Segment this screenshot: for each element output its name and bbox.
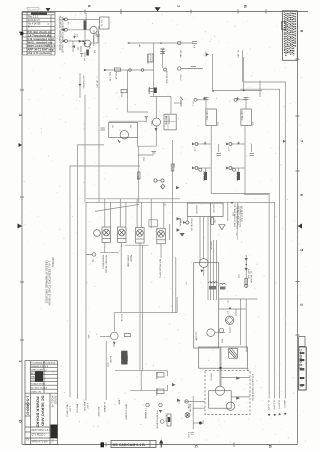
svg-text:12V: 12V <box>216 122 218 126</box>
svg-text:USED ON: USED ON <box>31 391 41 393</box>
svg-text:POWER BOARD: POWER BOARD <box>36 397 41 428</box>
svg-text:+15V SUPPLY: +15V SUPPLY <box>82 75 84 90</box>
svg-text:VOLT REG: VOLT REG <box>241 111 243 121</box>
svg-text:B: B <box>268 445 273 448</box>
svg-text:+17V: +17V <box>193 147 195 152</box>
svg-text:MOTOR: MOTOR <box>178 219 180 227</box>
svg-text:A-GND: A-GND <box>109 356 112 363</box>
svg-text:+ C7 10V: + C7 10V <box>165 413 167 423</box>
svg-text:CUTOUT: CUTOUT <box>168 116 170 125</box>
svg-text:+ ARM 15V: + ARM 15V <box>75 402 78 414</box>
svg-text:J-103: J-103 <box>187 432 189 438</box>
svg-text:VOLTAGE ADJUST R61: VOLTAGE ADJUST R61 <box>235 206 238 230</box>
svg-text:R1 10K: R1 10K <box>85 13 87 21</box>
svg-text:B+ MOTOR: B+ MOTOR <box>250 272 252 284</box>
svg-text:4 PULSE DC REGULATOR: 4 PULSE DC REGULATOR <box>251 374 254 401</box>
svg-text:F6 SPARE: F6 SPARE <box>103 402 106 413</box>
svg-text:SPARE: SPARE <box>120 352 123 360</box>
svg-text:+ ARM: + ARM <box>118 398 121 405</box>
svg-text:VOLT REG: VOLT REG <box>206 111 208 121</box>
svg-text:chk 4-71 recheck: chk 4-71 recheck <box>28 51 51 55</box>
svg-text:12V: 12V <box>251 122 253 126</box>
svg-text:B1 TEMP: B1 TEMP <box>97 407 99 417</box>
svg-text:DRAWN RJM 4-8: DRAWN RJM 4-8 <box>31 365 49 368</box>
svg-text:Q2 2N: Q2 2N <box>88 43 90 49</box>
svg-text:APPD 4-71 WH: APPD 4-71 WH <box>32 441 48 444</box>
svg-text:THE REGULATOR: THE REGULATOR <box>156 410 159 429</box>
svg-text:1.5K: 1.5K <box>213 219 215 224</box>
svg-text:R5 10K: R5 10K <box>155 372 157 380</box>
svg-text:R65 10: R65 10 <box>209 374 211 382</box>
svg-text:C4 .05: C4 .05 <box>162 48 164 55</box>
svg-text:25V: 25V <box>142 157 144 161</box>
svg-text:TOLERANCES UNLESS: TOLERANCES UNLESS <box>31 362 56 365</box>
svg-text:1.5K: 1.5K <box>232 212 234 217</box>
svg-text:AUX RELAY (OPT): AUX RELAY (OPT) <box>159 259 162 278</box>
svg-text:B: B <box>243 5 248 8</box>
svg-text:MEASURED NOMINAL VALUE: MEASURED NOMINAL VALUE <box>61 17 65 53</box>
svg-text:EMERGENCY: EMERGENCY <box>102 255 104 270</box>
svg-text:Rev 2.3.1: Rev 2.3.1 <box>28 16 39 19</box>
svg-text:115 VAC: 115 VAC <box>179 50 182 59</box>
svg-text:B+ of 47V: B+ of 47V <box>267 401 269 411</box>
svg-text:SPARE: SPARE <box>126 355 129 363</box>
svg-text:C12 10MF: C12 10MF <box>202 171 204 182</box>
svg-text:INTERLOCK: INTERLOCK <box>165 71 167 84</box>
svg-text:60 HZ: 60 HZ <box>179 75 181 82</box>
svg-text:RETRACT RELAY: RETRACT RELAY <box>105 255 108 273</box>
svg-text:+17V: +17V <box>227 147 229 152</box>
svg-text:-15V: -15V <box>87 334 89 339</box>
svg-text:1-5-0480-D: 1-5-0480-D <box>25 396 29 415</box>
svg-text:MS CAD/CAM 0-1 B: MS CAD/CAM 0-1 B <box>113 443 146 447</box>
svg-text:C1 .05: C1 .05 <box>100 20 102 27</box>
svg-text:R59 15K 1%: R59 15K 1% <box>190 219 192 231</box>
svg-text:A,B P.V: A,B P.V <box>283 401 286 409</box>
svg-text:R6 10K: R6 10K <box>155 389 157 397</box>
svg-text:- ARM 24V: - ARM 24V <box>83 401 86 412</box>
svg-text:R71 2K: R71 2K <box>120 314 122 322</box>
svg-text:UNLESS OTHERWISE SPECIFIED: UNLESS OTHERWISE SPECIFIED <box>45 261 49 304</box>
svg-text:R33 1K: R33 1K <box>148 87 150 95</box>
svg-text:NEXT ASSY 1-5-04: NEXT ASSY 1-5-04 <box>32 429 53 432</box>
svg-text:J-102: J-102 <box>69 406 71 412</box>
svg-text:DO NOT SCALE: DO NOT SCALE <box>31 386 48 389</box>
svg-text:D: D <box>18 420 23 423</box>
svg-text:+15V: +15V <box>107 362 109 368</box>
svg-text:CHECK WH 5-1: CHECK WH 5-1 <box>31 370 47 372</box>
svg-text:MOTOR: MOTOR <box>189 404 191 413</box>
svg-text:- ARM VOLTAGE: - ARM VOLTAGE <box>125 403 128 420</box>
svg-text:CURRENT LIMIT 500: CURRENT LIMIT 500 <box>239 206 241 228</box>
svg-text:+ TACH INPUT: + TACH INPUT <box>66 402 69 417</box>
svg-text:C: C <box>194 445 199 448</box>
svg-text:MODEL 45: MODEL 45 <box>50 396 53 408</box>
svg-text:R31 1K: R31 1K <box>115 72 117 80</box>
svg-text:B,J-4 P.V: B,J-4 P.V <box>273 401 275 410</box>
svg-text:MOTOR: MOTOR <box>210 242 212 251</box>
svg-text:QTY REQD 2: QTY REQD 2 <box>32 435 47 437</box>
svg-text:R100 10K: R100 10K <box>247 269 249 279</box>
svg-text:SCALE NONE: SCALE NONE <box>31 383 46 386</box>
svg-text:C: C <box>48 43 50 47</box>
svg-text:NOTES:: NOTES: <box>51 258 55 268</box>
svg-text:B 47 P.V: B 47 P.V <box>277 401 279 410</box>
svg-text:R64 2W: R64 2W <box>195 206 197 215</box>
svg-text:SERIES: SERIES <box>53 396 56 405</box>
svg-text:J-102: J-102 <box>86 403 88 409</box>
svg-text:RELAY: RELAY <box>130 255 133 263</box>
svg-text:C9 10MF: C9 10MF <box>195 332 197 342</box>
svg-text:B+ 34V: B+ 34V <box>237 51 239 59</box>
svg-text:C13 10MF: C13 10MF <box>236 171 238 182</box>
svg-text:F6 SPARE: F6 SPARE <box>144 409 147 420</box>
svg-text:1000 MFD: 1000 MFD <box>146 54 148 65</box>
svg-text:A7 15V: A7 15V <box>95 81 98 89</box>
svg-text:R60 300: R60 300 <box>212 205 214 214</box>
svg-text:C3 50V: C3 50V <box>149 55 151 63</box>
